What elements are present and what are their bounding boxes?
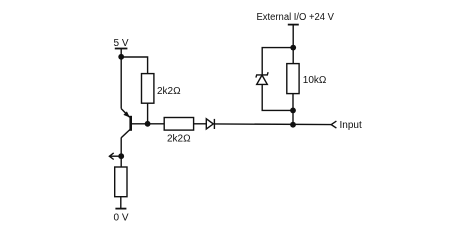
output arrow chevron xyxy=(109,153,113,160)
wire series R to diode xyxy=(194,123,207,125)
svg-text:5 V: 5 V xyxy=(113,38,128,49)
wire node to input line xyxy=(292,110,294,124)
ground bar 0 V xyxy=(115,208,126,210)
diode D triangle xyxy=(206,119,213,129)
transistor base lead xyxy=(132,123,148,125)
input arrow chevron xyxy=(331,121,336,128)
wire lower R to 0V bar xyxy=(120,197,122,209)
transistor base bar xyxy=(129,116,132,131)
junction dot collector node xyxy=(118,153,124,159)
resistor lower body xyxy=(115,167,127,197)
junction dot +24V node xyxy=(290,45,296,51)
wire collector vertical xyxy=(120,138,122,157)
svg-text:2k2Ω: 2k2Ω xyxy=(167,134,191,145)
output arrow wire xyxy=(110,155,121,157)
resistor 10k body xyxy=(287,64,299,94)
wire R bottom to base node xyxy=(147,103,149,124)
junction dot base node xyxy=(145,121,151,127)
wire 10k bottom to node xyxy=(292,94,294,111)
wire 5V bar to node xyxy=(120,49,122,58)
junction dot zener/R node xyxy=(290,108,296,114)
junction dot 5V node xyxy=(118,54,124,60)
wire collector node to lower R xyxy=(120,156,122,167)
wire zener anode down and right xyxy=(262,84,293,110)
wire emitter vertical xyxy=(120,57,122,109)
svg-text:Input: Input xyxy=(340,120,362,131)
svg-text:10kΩ: 10kΩ xyxy=(303,75,327,86)
junction dot input node xyxy=(290,122,296,128)
transistor PNP emitter diagonal with arrow xyxy=(121,109,129,118)
wire +24V bar to node xyxy=(292,25,294,48)
wire base node to series R xyxy=(148,123,165,125)
diode D cathode bar xyxy=(213,119,215,129)
svg-text:External I/O +24 V: External I/O +24 V xyxy=(257,12,335,23)
wire +24V node to zener top xyxy=(262,48,293,75)
zener cathode bar with hooks xyxy=(256,72,268,77)
supply bar +24V xyxy=(288,24,299,26)
resistor 2k2 series body xyxy=(164,118,193,131)
svg-text:2k2Ω: 2k2Ω xyxy=(157,86,181,97)
zener triangle xyxy=(257,75,268,84)
resistor 2k2 vertical body xyxy=(142,74,154,104)
wire 5V node to R top xyxy=(121,57,147,74)
wire input line xyxy=(214,123,331,126)
wire +24V node to 10k top xyxy=(292,48,294,64)
transistor collector diagonal xyxy=(121,130,130,138)
supply bar 5 V xyxy=(115,48,128,50)
svg-text:0 V: 0 V xyxy=(113,213,128,224)
